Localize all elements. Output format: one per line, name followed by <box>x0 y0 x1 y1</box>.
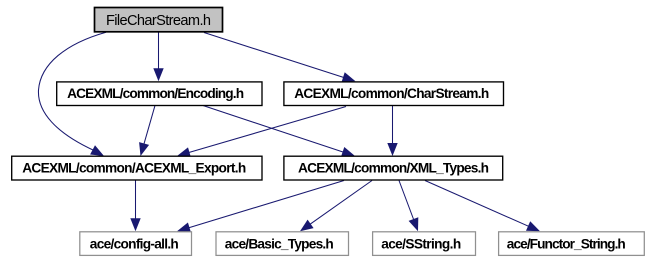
edge Encoding.h -> ACEXML_Export.h <box>139 106 155 157</box>
node FileCharStream.h (root) <box>95 8 223 32</box>
edge XML_Types.h -> config-all.h <box>177 181 344 233</box>
svg-text:ACEXML/common/ACEXML_Export.h: ACEXML/common/ACEXML_Export.h <box>22 160 246 175</box>
node ACEXML/common/ACEXML_Export.h <box>12 156 262 180</box>
edge CharStream.h -> ACEXML_Export.h <box>177 107 346 158</box>
node ace/SString.h <box>373 232 476 256</box>
svg-text:ACEXML/common/XML_Types.h: ACEXML/common/XML_Types.h <box>298 160 489 175</box>
svg-text:ace/Functor_String.h: ace/Functor_String.h <box>507 236 626 251</box>
node ACEXML/common/Encoding.h <box>57 82 262 106</box>
edge FileCharStream.h -> ACEXML_Export.h (curved) <box>38 32 106 156</box>
svg-text:FileCharStream.h: FileCharStream.h <box>106 13 211 29</box>
edge FileCharStream.h -> Encoding.h <box>153 32 163 82</box>
node ACEXML/common/XML_Types.h <box>284 156 503 180</box>
edge Encoding.h -> XML_Types.h <box>203 106 355 157</box>
edge XML_Types.h -> Functor_String.h <box>425 181 540 232</box>
edge ACEXML_Export.h -> config-all.h <box>130 181 140 232</box>
node ACEXML/common/CharStream.h <box>284 82 504 106</box>
edge CharStream.h -> XML_Types.h <box>387 106 397 157</box>
edge XML_Types.h -> Basic_Types.h <box>300 181 372 232</box>
edge XML_Types.h -> SString.h <box>399 181 418 232</box>
edge FileCharStream.h -> CharStream.h <box>204 33 356 83</box>
svg-text:ACEXML/common/Encoding.h: ACEXML/common/Encoding.h <box>67 86 244 101</box>
node ace/config-all.h <box>80 232 192 256</box>
svg-text:ACEXML/common/CharStream.h: ACEXML/common/CharStream.h <box>294 86 489 101</box>
svg-text:ace/SString.h: ace/SString.h <box>381 236 461 251</box>
svg-text:ace/Basic_Types.h: ace/Basic_Types.h <box>225 236 334 251</box>
node ace/Basic_Types.h <box>216 232 349 256</box>
node ace/Functor_String.h <box>499 232 645 256</box>
svg-text:ace/config-all.h: ace/config-all.h <box>90 236 179 251</box>
